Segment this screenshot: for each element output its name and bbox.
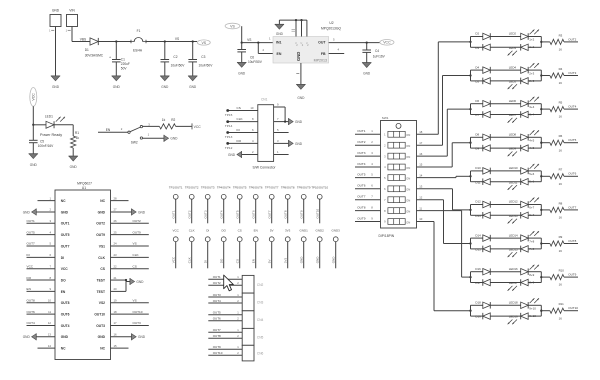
LED LED9: [508, 145, 529, 156]
test point TP2 OUT2: [188, 194, 195, 223]
wire / label 7+8: [528, 247, 541, 251]
svg-text:CN2: CN2: [257, 283, 264, 287]
svg-text:GND: GND: [138, 335, 146, 339]
ground: [112, 76, 121, 89]
diode D18: [475, 301, 490, 309]
svg-text:3V3: 3V3: [285, 229, 291, 233]
wire TEST pins join: [125, 279, 127, 292]
wire / label 1+2: [528, 45, 541, 49]
node LED row 2 right: [540, 70, 542, 81]
label TP8/OUT8: [281, 185, 295, 189]
wire OUT2: [564, 37, 578, 42]
svg-text:30V/3A/SMC: 30V/3A/SMC: [85, 54, 104, 58]
svg-text:16: 16: [559, 316, 563, 320]
node LED row 6 right: [540, 205, 542, 216]
ground: [296, 85, 305, 101]
wire: [541, 276, 550, 278]
U2 reference designator: [321, 21, 341, 30]
wire VIN to D1 anode: [72, 27, 90, 42]
svg-text:CLK: CLK: [237, 117, 244, 121]
svg-text:VCC: VCC: [172, 256, 176, 263]
resistor R4 16: [550, 67, 564, 85]
ground: [126, 278, 144, 285]
wire R1 to ground: [72, 148, 74, 156]
pin 13 of SW1: [419, 185, 423, 189]
wire / label 8+9: [528, 272, 541, 277]
test point TP10 OUT10: [316, 194, 323, 223]
SW1 orientation circle: [396, 123, 401, 128]
pin 24 VS1 of U1: [99, 242, 149, 249]
svg-text:4+5: 4+5: [529, 146, 534, 150]
svg-text:CLK: CLK: [133, 253, 140, 257]
pin 28 NC of U1: [100, 196, 128, 203]
pin 7 VCC of U1: [27, 264, 69, 271]
svg-text:ON: ON: [406, 188, 410, 192]
ground: [275, 24, 284, 35]
junctions top pins: [295, 19, 303, 21]
pin 1 IN1: [269, 36, 271, 40]
svg-text:VS2: VS2: [99, 301, 105, 305]
wire / label 5+6: [528, 171, 541, 176]
pin 3 OUT1 of U1: [27, 219, 70, 226]
svg-text:OUT4: OUT4: [220, 210, 224, 218]
LED LED7: [508, 111, 529, 122]
wire: [471, 304, 483, 306]
wire C3 to ground: [192, 62, 194, 76]
node LED row 8 left: [469, 272, 471, 283]
svg-text:9+10: 9+10: [529, 314, 536, 318]
pin 3 GND tick: [296, 73, 299, 75]
wire: [471, 103, 483, 105]
svg-text:ON: ON: [406, 155, 410, 159]
svg-text:1+2: 1+2: [529, 38, 534, 42]
svg-text:OUT3: OUT3: [213, 293, 221, 297]
svg-text:GND: GND: [61, 335, 69, 339]
ground: [164, 135, 178, 142]
svg-text:TP3/OUT3: TP3/OUT3: [201, 185, 215, 189]
wire CN1 pin 3 to ground: [274, 139, 289, 144]
SW1 element 6: [384, 186, 410, 192]
LED LED12: [509, 198, 539, 208]
diode D3: [475, 44, 490, 51]
switch SW2: [128, 125, 143, 144]
svg-text:16: 16: [559, 283, 563, 287]
label 3V3: [285, 229, 291, 233]
wire: [541, 75, 550, 77]
LED LED3: [508, 44, 529, 55]
pin 2 GND of U1: [36, 208, 68, 215]
wire C5 to ground: [32, 143, 34, 154]
svg-text:DI: DI: [27, 253, 30, 257]
svg-text:17: 17: [419, 141, 423, 145]
mouse cursor: [224, 275, 234, 291]
svg-text:OUT10: OUT10: [94, 313, 105, 317]
test point TP7 OUT7: [268, 194, 275, 223]
wire SW1 pin 13 to LED row 6: [417, 189, 471, 210]
LED LED18: [509, 298, 539, 308]
svg-text:GND: GND: [136, 280, 144, 284]
wire: [471, 315, 483, 317]
label TP10/OUT10: [311, 185, 328, 189]
svg-text:VS1: VS1: [99, 244, 105, 248]
svg-text:GND: GND: [295, 120, 303, 124]
svg-text:OUT10: OUT10: [133, 310, 143, 314]
svg-text:U1: U1: [82, 186, 86, 190]
svg-text:19: 19: [114, 298, 118, 302]
svg-text:VCC: VCC: [194, 125, 202, 129]
pin 27 GND of U1: [98, 208, 132, 215]
svg-text:C2: C2: [173, 55, 177, 59]
net label VS: [197, 40, 210, 45]
svg-text:NC: NC: [61, 347, 66, 351]
svg-text:OUT6: OUT6: [213, 317, 221, 321]
svg-text:OUT8: OUT8: [213, 334, 221, 338]
svg-text:10uF/50V: 10uF/50V: [248, 60, 263, 64]
svg-text:DO: DO: [237, 139, 242, 143]
node LED row 7 left: [469, 238, 471, 249]
wire: [471, 170, 483, 172]
svg-text:10: 10: [419, 217, 423, 221]
wire OUT7 to CN5 pin 1: [208, 328, 242, 332]
svg-text:DI: DI: [237, 128, 240, 132]
svg-text:GND: GND: [332, 256, 336, 264]
svg-text:OUT9: OUT9: [96, 233, 105, 237]
svg-text:OUT10: OUT10: [568, 306, 578, 310]
svg-text:8+9: 8+9: [529, 273, 534, 277]
wire: [471, 248, 483, 250]
node LED row 4 right: [540, 137, 542, 148]
wire OUT6 to SW1 pin 6: [355, 184, 381, 189]
node EN: [106, 128, 111, 132]
fuse F1 ES/4A: [131, 29, 146, 53]
svg-text:R7: R7: [559, 168, 563, 172]
svg-text:OUT7: OUT7: [357, 195, 366, 199]
pin 10 of SW1: [419, 217, 423, 221]
svg-text:ON: ON: [406, 199, 410, 203]
svg-text:LED11: LED11: [509, 180, 518, 184]
svg-text:GND1: GND1: [300, 229, 309, 233]
IC U1 MPQ6027 body: [55, 190, 111, 360]
svg-text:EN: EN: [27, 287, 31, 291]
wire: [471, 69, 483, 71]
wire R2 to VCC: [176, 125, 192, 127]
wire U2 OUT to VCC: [329, 42, 380, 44]
U1 reference designator: [77, 181, 92, 190]
capacitor C6 10uF 50V: [237, 50, 262, 65]
label TP5/OUT5: [233, 185, 247, 189]
node LED row 2 left: [469, 70, 471, 81]
svg-text:VCC: VCC: [383, 41, 391, 45]
net label VCC: [380, 40, 394, 46]
wire: [471, 181, 483, 183]
pin 1 of J1: [49, 29, 54, 33]
ground: [23, 209, 36, 216]
node LED row 6 left: [469, 205, 471, 216]
wire: [471, 204, 483, 206]
svg-text:ON: ON: [406, 144, 410, 148]
connector CN1 S/W Connector body: [253, 98, 277, 170]
svg-text:5+6: 5+6: [529, 172, 534, 176]
wire: [490, 248, 520, 250]
label DI: [206, 229, 209, 233]
wire to C4: [366, 43, 368, 50]
test point VCC: [172, 237, 179, 268]
wire / label 2+3: [528, 70, 541, 75]
svg-text:D8: D8: [475, 133, 479, 137]
wire: [541, 142, 550, 144]
ground: [289, 140, 303, 147]
wire C4 to ground: [366, 52, 368, 62]
pin 19 VS2 of U1: [99, 298, 149, 305]
diode D6: [475, 99, 490, 107]
test point CS: [236, 237, 243, 268]
svg-text:GND: GND: [316, 256, 320, 264]
test point 3V3: [284, 237, 291, 268]
pin 10 OUT8 of U1: [27, 298, 70, 305]
svg-text:GND: GND: [238, 72, 246, 76]
svg-text:GND: GND: [295, 142, 303, 146]
wire / label 8+9: [528, 280, 541, 284]
wire SW2 pin 3 to R2: [143, 122, 160, 126]
svg-text:VS: VS: [133, 298, 137, 302]
wire: [490, 315, 520, 317]
svg-text:OUT8: OUT8: [284, 210, 288, 218]
node LED row 7 right: [540, 238, 542, 249]
connector J2 VIN input: [67, 9, 78, 27]
LED LED4: [509, 63, 539, 73]
svg-text:OUT9: OUT9: [357, 216, 366, 220]
svg-text:18: 18: [419, 130, 423, 134]
svg-text:LED5: LED5: [509, 80, 517, 84]
ground: [160, 76, 169, 89]
svg-text:D10: D10: [475, 166, 481, 170]
wire / label 9+10: [528, 305, 541, 310]
svg-text:DO: DO: [27, 276, 32, 280]
test point TP6 OUT6: [252, 194, 259, 223]
pin 6 DI of U1: [27, 253, 65, 260]
label GND2: [316, 229, 325, 233]
svg-text:12: 12: [419, 195, 423, 199]
svg-text:R4: R4: [559, 67, 563, 71]
svg-text:ES/4A: ES/4A: [133, 49, 143, 53]
svg-text:2+3: 2+3: [529, 71, 534, 75]
wire / label 3+4: [528, 112, 541, 116]
ground: [132, 333, 146, 340]
svg-text:+: +: [109, 56, 111, 60]
label DIP/18PIN: [379, 234, 395, 238]
capacitor C2 10uF 50V: [161, 55, 186, 68]
wire OUT8 to SW1 pin 8: [355, 205, 381, 210]
SW1 element 2: [384, 142, 410, 148]
diode D12: [475, 200, 490, 208]
diode D4: [475, 65, 490, 73]
ground: [29, 154, 38, 167]
node LED row 1 right: [540, 37, 542, 48]
svg-text:23: 23: [114, 253, 118, 257]
pin 12 OUT4 of U1: [27, 321, 70, 328]
svg-text:OUT9: OUT9: [300, 210, 304, 218]
diode D19: [475, 313, 490, 320]
wire / label 1+2: [528, 37, 541, 42]
diode D7: [475, 111, 490, 118]
diode D16: [475, 267, 490, 275]
svg-text:7+8: 7+8: [529, 247, 534, 251]
svg-text:1+2: 1+2: [529, 45, 534, 49]
svg-text:18: 18: [114, 310, 118, 314]
label GND3: [332, 229, 341, 233]
test point TP13 / wire DI to CN1 pin 6: [226, 128, 257, 134]
pin 11 of SW1: [419, 206, 422, 210]
wire SW2 pin 1 to ground: [143, 133, 164, 139]
wire / label 2+3: [528, 79, 541, 83]
pin 13 GND of U1: [36, 333, 68, 340]
wire CN1 pin 9 to pin 7: [274, 103, 286, 122]
SW1 element 4: [384, 164, 410, 170]
SW1 element 1: [384, 131, 410, 137]
wire SW1 pin 16 to LED row 3: [417, 109, 471, 156]
svg-text:NC: NC: [100, 347, 105, 351]
wire SW1 pin 17 to LED row 2: [417, 76, 471, 146]
svg-text:VCC: VCC: [32, 93, 36, 101]
wire CN1 pin 5 stub: [274, 128, 289, 133]
label CS: [238, 229, 242, 233]
node LED row 5 right: [540, 171, 542, 182]
label CN2: [257, 283, 264, 287]
wire SW1 pin 10 to LED row 9: [417, 222, 471, 311]
wire: [541, 108, 550, 110]
node at C3: [192, 40, 194, 42]
svg-text:16: 16: [559, 249, 563, 253]
svg-text:LED13: LED13: [509, 214, 518, 218]
svg-text:D12: D12: [475, 200, 481, 204]
svg-text:11: 11: [419, 206, 422, 210]
wire OUT2 to CN2 pin 2: [208, 281, 242, 285]
resistor R8 16: [550, 201, 564, 219]
svg-text:MP2013: MP2013: [314, 58, 327, 62]
wire OUT7 to SW1 pin 7: [355, 195, 381, 200]
ground: [289, 118, 303, 125]
svg-text:16: 16: [559, 148, 563, 152]
svg-text:OUT6: OUT6: [27, 310, 36, 314]
test point TP14 / wire CLK to CN1 pin 8: [226, 117, 257, 123]
test point CLK: [188, 237, 195, 268]
svg-text:CLK: CLK: [189, 229, 195, 233]
svg-text:DO: DO: [220, 258, 224, 263]
wire: [471, 271, 483, 273]
svg-text:D7: D7: [475, 113, 479, 117]
node VS: [175, 37, 179, 41]
wire: [471, 136, 483, 138]
node LED row 9 right: [540, 305, 542, 316]
svg-text:GND: GND: [70, 165, 78, 169]
pin 16 of SW1: [419, 152, 423, 156]
svg-text:OUT5: OUT5: [61, 233, 70, 237]
diode D5: [475, 78, 490, 85]
svg-text:GND: GND: [363, 72, 371, 76]
LED LED19: [508, 313, 529, 324]
pin 25 OUT9 of U1: [96, 230, 149, 237]
wire D1 cathode to F1: [99, 41, 132, 43]
svg-text:GND: GND: [189, 85, 197, 89]
wire OUT2 to SW1 pin 2: [355, 140, 381, 145]
svg-text:6+7: 6+7: [529, 213, 534, 217]
pin 15 NC of U1: [100, 344, 128, 351]
wire: [471, 80, 483, 82]
wire OUT1 to CN2 pin 1: [208, 275, 242, 279]
svg-text:LED10: LED10: [509, 166, 518, 170]
svg-text:OUT3: OUT3: [357, 151, 366, 155]
svg-text:OUT1: OUT1: [61, 222, 70, 226]
svg-text:OUT2: OUT2: [188, 210, 192, 218]
svg-text:LED12: LED12: [509, 200, 518, 204]
svg-text:OUT2: OUT2: [213, 281, 221, 285]
wire: [471, 36, 483, 38]
test point TP5 OUT5: [236, 194, 243, 223]
ground: [237, 63, 246, 76]
svg-text:LED4: LED4: [509, 65, 517, 69]
svg-text:VS: VS: [175, 37, 179, 41]
wire / label 9+10: [528, 314, 541, 318]
label CN6: [257, 352, 264, 356]
svg-text:DO: DO: [61, 278, 66, 282]
ground: [132, 209, 146, 216]
wire: [471, 214, 483, 216]
svg-text:D17: D17: [475, 281, 481, 285]
node LED row 3 right: [540, 104, 542, 115]
wire: [471, 237, 483, 239]
svg-text:VS: VS: [230, 24, 235, 28]
wire OUT9 to SW1 pin 9: [355, 216, 381, 221]
svg-text:OUT7: OUT7: [568, 205, 576, 209]
pin 11 OUT6 of U1: [27, 310, 70, 317]
test point GND3: [332, 237, 339, 268]
svg-text:10uF/50V: 10uF/50V: [199, 64, 214, 68]
svg-text:ON: ON: [406, 133, 410, 137]
svg-text:D4: D4: [475, 65, 479, 69]
svg-text:1k: 1k: [162, 118, 166, 122]
wire: [490, 237, 520, 239]
diode D8: [475, 133, 490, 141]
label VCC: [173, 229, 180, 233]
wire: [541, 175, 550, 177]
diode D9: [475, 145, 490, 152]
wire to C1: [115, 42, 117, 60]
SW1 element 8: [384, 208, 410, 214]
svg-text:TEST: TEST: [97, 278, 105, 282]
svg-text:FB: FB: [321, 52, 326, 56]
pin 1 NC of U1: [38, 196, 67, 203]
diode D17: [475, 279, 490, 286]
svg-text:GND: GND: [276, 32, 284, 36]
wire: [490, 46, 520, 48]
pin 14 of SW1: [419, 173, 423, 177]
svg-text:OUT7: OUT7: [268, 210, 272, 218]
svg-text:U: U: [306, 42, 308, 45]
capacitor C1 220uF 50V: [109, 56, 130, 71]
svg-text:3+4: 3+4: [529, 105, 534, 109]
svg-text:CLK: CLK: [98, 256, 105, 260]
label DO: [221, 229, 226, 233]
label TP13: [225, 135, 233, 139]
svg-text:GND: GND: [228, 153, 236, 157]
LED LED17: [508, 279, 529, 290]
svg-text:OUT1: OUT1: [357, 129, 366, 133]
wire OUT4 to SW1 pin 4: [355, 162, 381, 167]
pin 2 EN: [263, 48, 265, 52]
svg-text:OUT5: OUT5: [213, 311, 221, 315]
wire: [490, 181, 520, 183]
svg-text:Power Ready: Power Ready: [40, 133, 62, 137]
